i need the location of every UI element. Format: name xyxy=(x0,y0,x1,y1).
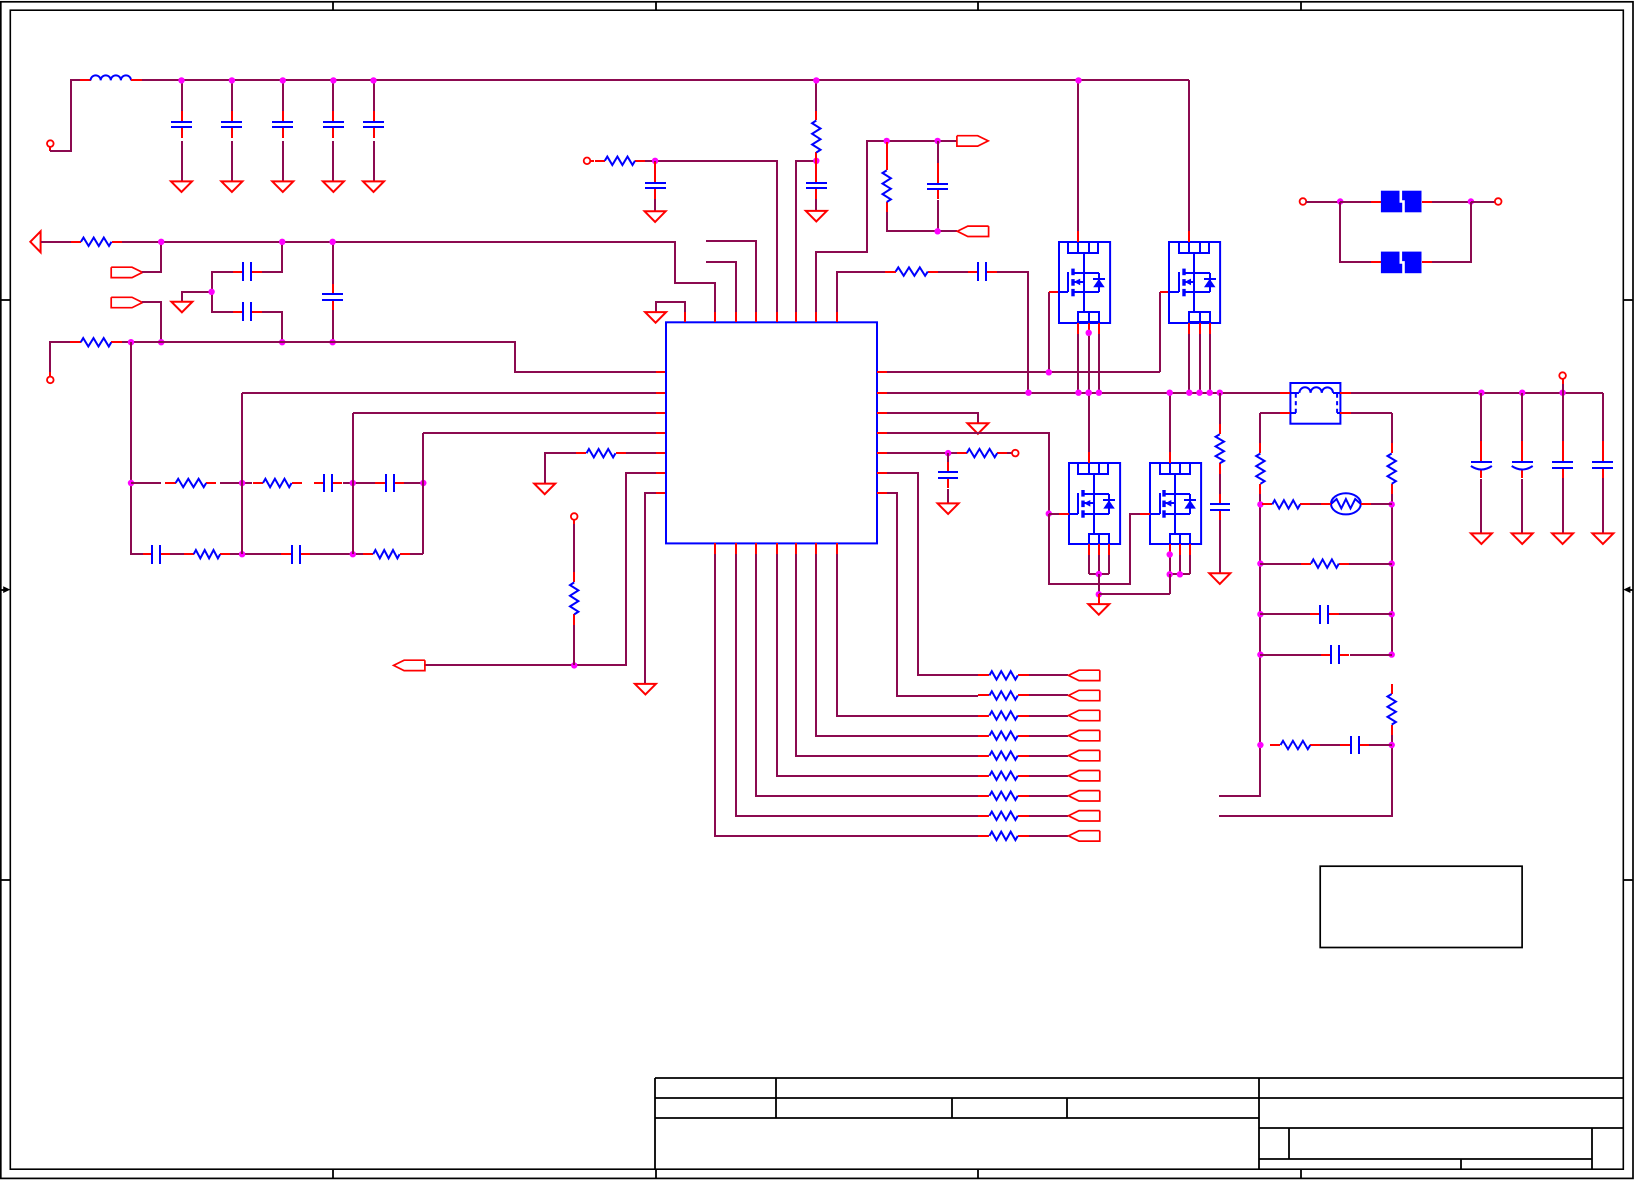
wire row2 end xyxy=(410,553,423,555)
ground G4 xyxy=(635,684,656,695)
wire Q3 source 3 xyxy=(1108,555,1110,574)
wire C6 to top node xyxy=(262,242,282,272)
wire CO2 gnd xyxy=(1521,479,1523,533)
resistor R1 xyxy=(71,238,122,246)
border right mid arrow xyxy=(1623,586,1633,593)
pin stub J4 xyxy=(590,160,594,162)
wire J1 to L1 xyxy=(50,80,80,151)
junction F2 node xyxy=(158,339,164,345)
resistor R13 xyxy=(1216,424,1224,474)
title block table xyxy=(655,1078,1623,1169)
pin stub IC left pin4 xyxy=(656,432,666,434)
wire C4 to ground xyxy=(332,141,334,181)
wire to FU1 xyxy=(1340,201,1371,203)
wire C17 to rail2 xyxy=(997,272,1028,393)
pin stub C16 top xyxy=(937,163,939,173)
flag FO5 xyxy=(1069,750,1100,760)
wire Q1 source 1 xyxy=(1077,334,1079,393)
pin stub J1 xyxy=(49,147,51,151)
wire pin row5 xyxy=(887,452,957,454)
junction fb R11 xyxy=(884,138,890,144)
wire switch rail right xyxy=(1351,392,1603,394)
wire Q1 source 3 xyxy=(1098,334,1100,393)
wire output row 3 xyxy=(837,554,978,716)
junction gate row xyxy=(1046,369,1052,375)
capacitor C9 xyxy=(314,474,342,492)
capacitor CO1 polarized xyxy=(1471,451,1492,478)
resistor R11 xyxy=(883,160,891,212)
wire node to J8 xyxy=(1471,201,1495,203)
wire row2 seg2 xyxy=(310,553,363,555)
junction rail C2 xyxy=(229,77,235,83)
wire rail to Q4 top xyxy=(1169,393,1171,452)
resistor R16 xyxy=(1388,443,1396,494)
wire Q2 source 2 xyxy=(1199,334,1201,393)
wire CO1 gnd xyxy=(1480,479,1482,533)
pin stub Q4 gate lead xyxy=(1140,513,1150,515)
wire Q3 gate stub xyxy=(1049,513,1059,515)
wire C2 to ground xyxy=(231,141,233,181)
pin stub IC left pin3 xyxy=(656,412,666,414)
junction ladder L3 xyxy=(1257,611,1263,617)
pin stub R11 top xyxy=(886,142,888,160)
wire T1 left tap xyxy=(1260,412,1280,414)
wire output row 4 xyxy=(816,554,978,736)
ground under CO3 xyxy=(1552,533,1573,544)
fuse FU1 xyxy=(1371,190,1432,213)
resistor R20 xyxy=(1270,741,1321,749)
terminal J3 xyxy=(571,513,578,520)
terminal J8 xyxy=(1495,198,1502,205)
junction rail C17 xyxy=(1025,390,1031,396)
capacitor C10 xyxy=(375,474,404,492)
wire RO6 to flag xyxy=(1029,775,1068,777)
wire output row 9 xyxy=(715,554,978,836)
wire R8 to flag row xyxy=(573,625,575,665)
inductor L1 xyxy=(91,75,131,80)
wire C16 bottom xyxy=(937,200,939,231)
wire output row 7 xyxy=(756,554,978,796)
wire F2 to node xyxy=(142,302,161,342)
junction rail R10 xyxy=(813,77,819,83)
junction row1 mid1 xyxy=(239,480,245,486)
junction Q2 source 1 xyxy=(1186,390,1192,396)
junction C7 bottom xyxy=(279,339,285,345)
pin stub IC left pin6 xyxy=(656,472,666,474)
wire C3 to ground xyxy=(282,141,284,181)
pin stub Q1 gate xyxy=(1049,291,1059,293)
junction ladder L5 xyxy=(1257,742,1263,748)
transistor Q1 xyxy=(1059,231,1110,334)
resistor R9 xyxy=(595,157,645,165)
flag F2 xyxy=(111,297,142,307)
pin stub IC left pin2 xyxy=(656,392,666,394)
wire rail to Q1 top xyxy=(1077,80,1079,231)
wire right rail mid xyxy=(1391,494,1393,655)
wire pin6 to flag row xyxy=(424,473,656,665)
junction Q3 tie xyxy=(1096,571,1102,577)
capacitor CO3 xyxy=(1552,451,1573,478)
wire pin4 drop xyxy=(422,433,424,483)
wire IC pin4 row xyxy=(423,432,656,434)
pin stub IC left pin7 xyxy=(656,492,666,494)
capacitor C20 xyxy=(1310,605,1339,624)
capacitor C5 xyxy=(363,111,384,138)
junction row1 mid2 xyxy=(350,480,356,486)
junction ladder R1 xyxy=(1389,501,1395,507)
junction row1 end xyxy=(420,480,426,486)
junction ladder R5 xyxy=(1389,742,1395,748)
border left mid arrow xyxy=(1,586,10,593)
wire ladder mid vert2 xyxy=(352,483,354,554)
ground under C2 xyxy=(221,181,242,192)
wire IC pin2 row xyxy=(242,392,656,394)
wire C8 bottom xyxy=(332,310,334,342)
wire row1 seg1 xyxy=(131,482,161,484)
pin stub C14 top xyxy=(654,162,656,173)
junction rail C3 xyxy=(280,77,286,83)
terminal J2 xyxy=(47,377,54,384)
junction cap mid xyxy=(208,289,214,295)
resistor RO1 xyxy=(978,671,1029,679)
wire rail to C2 xyxy=(231,80,233,111)
resistor R12 xyxy=(885,267,938,275)
wire pin row7 xyxy=(887,493,978,696)
wire output row 5 xyxy=(796,554,978,756)
wire Q4 source 2 xyxy=(1179,555,1181,574)
pin stub CO4 top xyxy=(1602,441,1604,452)
wire R13 top xyxy=(1219,393,1221,424)
capacitor C18 xyxy=(938,462,958,488)
wire gate Q2 up xyxy=(1159,292,1161,372)
wire FU1 to right node xyxy=(1432,201,1471,203)
junction Q4 tie b xyxy=(1177,571,1183,577)
resistor R14 xyxy=(957,449,1007,457)
wire mid to ground xyxy=(182,292,212,302)
wire lrow3 right xyxy=(1339,613,1392,615)
junction fb C16 xyxy=(934,138,940,144)
wire Q1 source 2 xyxy=(1088,334,1090,393)
junction node A row1 xyxy=(128,480,134,486)
wire left rail top xyxy=(1259,413,1261,443)
wire pin row6 xyxy=(887,473,978,675)
wire C19 gnd xyxy=(1219,520,1221,573)
pin stub C15 top xyxy=(815,162,817,173)
junction fuse left xyxy=(1337,198,1343,204)
wire R12 C17 xyxy=(938,271,968,273)
flag FO6 xyxy=(1069,771,1100,781)
pin stub IC left pin5 xyxy=(656,452,666,454)
junction Q2 source 3 xyxy=(1207,390,1213,396)
junction fuse right xyxy=(1468,198,1474,204)
wire lrow2 right xyxy=(1349,563,1392,565)
wire row2 seg0 xyxy=(170,553,184,555)
ground under C5 xyxy=(363,181,384,192)
wire rail to Q2 top xyxy=(1188,80,1190,231)
pin stub L1 left xyxy=(80,79,91,81)
pin stub CO1 top xyxy=(1480,441,1482,452)
ground under CO2 xyxy=(1512,533,1533,544)
wire R14 to J5 xyxy=(1007,452,1012,454)
transistor Q3 xyxy=(1069,452,1120,555)
wire IC top pin3 stub xyxy=(706,262,736,312)
junction Q1 source 1 xyxy=(1075,390,1081,396)
wire Q2 source 3 xyxy=(1209,334,1211,393)
junction Q3 gate xyxy=(1046,510,1052,516)
wire IC top pin5 xyxy=(645,161,777,312)
wire row1 mid xyxy=(1310,503,1321,505)
junction C6 top xyxy=(279,239,285,245)
ground G10 xyxy=(1088,594,1109,615)
capacitor C12 xyxy=(281,545,310,564)
ground G6 xyxy=(645,211,666,222)
wire fb top xyxy=(876,140,957,142)
junction ladder R3 xyxy=(1389,611,1395,617)
pin stub J2 xyxy=(49,372,51,377)
wire RO7 to flag xyxy=(1029,795,1068,797)
flag FO7 xyxy=(1069,791,1100,801)
wire row2 seg1 xyxy=(230,553,281,555)
wire C14 drop xyxy=(654,161,656,172)
wire rail to C3 xyxy=(282,80,284,111)
pin stub Q2 gate xyxy=(1160,291,1169,293)
wire Q2 source 1 xyxy=(1188,334,1190,393)
pin stub L1 right xyxy=(131,79,142,81)
wire C5 to ground xyxy=(373,141,375,181)
wire IC top pin8 path xyxy=(837,272,885,312)
junction rail R13 xyxy=(1217,390,1223,396)
wire pin row4 xyxy=(887,433,1049,514)
capacitor C7 xyxy=(233,302,262,321)
wire RO4 to flag xyxy=(1029,735,1068,737)
junction F1 node xyxy=(158,239,164,245)
flag F1 xyxy=(111,267,142,277)
resistor R15 xyxy=(1256,443,1264,494)
wire rail to CO2 xyxy=(1521,393,1523,441)
wire left rail mid xyxy=(1219,494,1260,796)
wire Q4 source 3 xyxy=(1189,555,1191,574)
wire pin row3 xyxy=(887,413,978,423)
revision box rectangle xyxy=(1320,866,1522,947)
junction row2 mid2 xyxy=(350,551,356,557)
wire C16 top xyxy=(937,141,939,163)
junction Q1 source 2 xyxy=(1086,390,1092,396)
wire fuse loop right xyxy=(1432,202,1471,262)
pin stub CO3 top xyxy=(1562,441,1564,452)
wire C15 gnd xyxy=(815,199,817,211)
wire R2 to IC pin1 xyxy=(122,342,656,372)
wire R1 to IC pin row xyxy=(122,242,715,312)
wire ladder end vert xyxy=(422,483,424,554)
resistor R10 xyxy=(812,110,820,163)
capacitor C6 xyxy=(233,262,262,281)
capacitor C16 xyxy=(927,173,948,199)
junction ladder L4 xyxy=(1257,651,1263,657)
wire CO3 gnd xyxy=(1562,478,1564,533)
resistor R4 xyxy=(253,479,302,487)
capacitor C22 xyxy=(1340,736,1369,754)
wire lrow5 right xyxy=(1369,744,1392,746)
capacitor C3 xyxy=(272,111,293,138)
transformer T1 xyxy=(1280,383,1351,424)
wire row1 seg2 xyxy=(220,482,252,484)
resistor R18 xyxy=(1262,500,1310,508)
resistor RO4 xyxy=(978,731,1029,739)
wire row1 right xyxy=(1371,503,1392,505)
junction fb bottom xyxy=(934,228,940,234)
pin stub Q3 gate lead xyxy=(1059,513,1069,515)
thermistor RT1 xyxy=(1321,493,1371,514)
capacitor C1 xyxy=(171,111,192,138)
pin stub J6 xyxy=(1562,379,1564,384)
transistor Q2 xyxy=(1169,231,1220,334)
resistor R6 xyxy=(363,550,410,558)
wire Q3 tie down xyxy=(1098,574,1100,594)
wire rail to CO1 xyxy=(1480,393,1482,441)
wire output row 6 xyxy=(777,554,978,776)
capacitor C14 xyxy=(645,172,666,199)
wire lrow3 left xyxy=(1260,613,1310,615)
wire switch rail left xyxy=(887,392,1280,394)
capacitor C8 xyxy=(322,284,343,310)
wire rail to C4 xyxy=(332,80,334,111)
ground under C4 xyxy=(323,181,344,192)
junction Q4 tie a xyxy=(1167,571,1173,577)
ground G5 xyxy=(645,312,666,323)
wire F1 to node xyxy=(142,242,161,272)
wire output row 8 xyxy=(736,554,978,816)
junction rail CO2 xyxy=(1519,390,1525,396)
wire Q3 source 2 xyxy=(1098,555,1100,574)
junction R10 C15 xyxy=(813,158,819,164)
junction row2 mid1 xyxy=(239,551,245,557)
resistor R3 xyxy=(165,479,216,487)
ground under C1 xyxy=(171,181,192,192)
wire IC top pin4 stub xyxy=(706,241,756,312)
wire Q3 source tie xyxy=(1089,573,1109,575)
junction rail C1 xyxy=(178,77,184,83)
junction rail C5 xyxy=(370,77,376,83)
wire source link xyxy=(1099,593,1170,595)
flag FO4 xyxy=(1069,730,1100,740)
resistor RO3 xyxy=(978,711,1029,719)
IC bottom pin stubs xyxy=(715,543,837,554)
wire C1 to ground xyxy=(181,141,183,181)
junction ladder L2 xyxy=(1257,560,1263,566)
capacitor C17 xyxy=(968,262,997,281)
resistor RO5 xyxy=(978,751,1029,759)
wire RO1 to flag xyxy=(1029,674,1068,676)
junction C8 bottom xyxy=(329,339,335,345)
ground G2 xyxy=(171,302,192,313)
wire J7 to F node xyxy=(1306,201,1340,203)
fuse FU2 xyxy=(1371,251,1432,274)
wire RO9 to flag xyxy=(1029,835,1068,837)
junction rail CO3 xyxy=(1559,390,1565,396)
wire gate Q1 up xyxy=(1048,292,1050,372)
pin stub CO2 top xyxy=(1521,441,1523,452)
junction Q1 source 3 xyxy=(1096,390,1102,396)
capacitor C11 xyxy=(143,545,170,564)
terminal J6 xyxy=(1559,372,1566,379)
flag FO2 xyxy=(1069,690,1100,700)
junction rail CO1 xyxy=(1478,390,1484,396)
ground G7 xyxy=(806,211,827,222)
resistor RO2 xyxy=(978,691,1029,699)
wire RO2 to flag xyxy=(1029,694,1068,696)
ground G8 xyxy=(967,423,988,434)
wire rail to CO3 xyxy=(1562,393,1564,441)
ground under CO4 xyxy=(1592,533,1613,544)
wire right rail top xyxy=(1391,413,1393,443)
resistor R19 xyxy=(1301,559,1349,567)
junction row5 xyxy=(945,450,951,456)
junction rail Q4 top xyxy=(1167,390,1173,396)
junction Q2 source 2 xyxy=(1196,390,1202,396)
wire R7 to pin xyxy=(626,452,656,454)
wire gate tie xyxy=(1049,514,1140,584)
wire IC top pin6 xyxy=(796,161,816,312)
wire rail to Q3 top xyxy=(1088,393,1090,452)
wire RO5 to flag xyxy=(1029,755,1068,757)
wire Q4 source 1 xyxy=(1169,555,1171,574)
wire lrow4 right xyxy=(1350,654,1392,656)
resistor R17 xyxy=(1388,684,1396,735)
wire J2 to R2 xyxy=(50,342,70,372)
junction C8 top xyxy=(329,239,335,245)
wire row1 end xyxy=(404,482,423,484)
junction R2 node A xyxy=(128,339,134,345)
wire R13 C19 xyxy=(1219,474,1221,496)
wire fuse loop left xyxy=(1340,202,1371,262)
wire rail to C1 xyxy=(181,80,183,111)
wire CO4 gnd xyxy=(1602,478,1604,533)
wire C18 gnd xyxy=(947,489,949,503)
junction ladder R4 xyxy=(1389,651,1395,657)
junction rail Q3 top xyxy=(1085,390,1091,396)
wire IC top pin1 hook xyxy=(656,302,685,312)
junction Q1 source mid xyxy=(1086,330,1092,336)
wire J6 to rail xyxy=(1562,384,1564,393)
flag F4 xyxy=(957,136,988,146)
wire Q3 source 1 xyxy=(1088,555,1090,574)
capacitor CO4 xyxy=(1592,451,1613,478)
wire rail to CO4 xyxy=(1602,393,1604,441)
capacitor CO2 polarized xyxy=(1512,451,1533,478)
flag FO1 xyxy=(1069,670,1100,680)
capacitor C19 xyxy=(1210,494,1230,520)
flag FO3 xyxy=(1069,710,1100,720)
wire rail to C5 xyxy=(373,80,375,111)
wire C8 top xyxy=(332,242,334,284)
IC right pin stubs xyxy=(877,372,887,493)
pin stub J3 xyxy=(573,520,575,524)
resistor RO9 xyxy=(978,832,1029,840)
wire RO3 to flag xyxy=(1029,715,1068,717)
wire lrow4 left xyxy=(1260,654,1321,656)
wire right rail bottom xyxy=(1219,735,1392,816)
wire C18 drop xyxy=(947,453,949,462)
capacitor C4 xyxy=(323,111,344,138)
wire P1 to R1 xyxy=(41,241,71,243)
wire lrow5 mid xyxy=(1320,744,1340,746)
flag FO8 xyxy=(1069,811,1100,821)
junction ladder R2 xyxy=(1389,560,1395,566)
resistor R5 xyxy=(183,550,230,558)
wire ladder mid vert1 xyxy=(241,483,243,554)
capacitor C21 xyxy=(1321,645,1349,664)
wire pin2 drop xyxy=(241,393,243,483)
